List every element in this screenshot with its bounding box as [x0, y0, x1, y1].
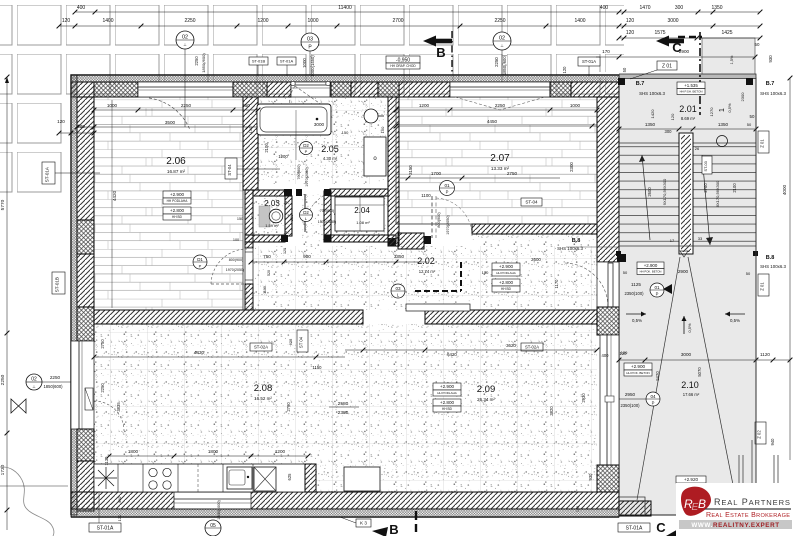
svg-text:0,5%: 0,5%: [632, 318, 642, 323]
svg-text:HH PODLAHA: HH PODLAHA: [437, 391, 457, 395]
svg-text:1200: 1200: [275, 449, 286, 454]
slope arrows 2.10: [626, 313, 646, 315]
label box ST-02A kitchen: [250, 343, 272, 351]
svg-text:3000: 3000: [667, 18, 678, 24]
svg-text:01: 01: [444, 183, 450, 188]
right wall window (2.09 slider): [600, 335, 619, 465]
svg-text:5420: 5420: [655, 371, 660, 381]
svg-text:9X170,56X300: 9X170,56X300: [662, 178, 667, 205]
svg-text:16.52 m²: 16.52 m²: [254, 396, 272, 401]
bottom exterior wall insulation band: [71, 509, 619, 517]
svg-text:2.03: 2.03: [264, 199, 280, 208]
svg-text:ST-02A: ST-02A: [525, 345, 539, 350]
svg-text:1000: 1000: [307, 18, 318, 24]
svg-text:+2.900: +2.900: [631, 364, 646, 369]
corner wall block at 2.07 door: [398, 233, 424, 249]
svg-text:2950: 2950: [625, 392, 636, 397]
svg-text:0,5%: 0,5%: [730, 318, 740, 323]
svg-text:150: 150: [342, 130, 349, 135]
radiator at window: [85, 388, 93, 410]
svg-text:Z 01: Z 01: [760, 282, 765, 291]
fence lines above logo: [739, 440, 778, 483]
label box K 3: [356, 519, 371, 527]
svg-text:1400: 1400: [574, 18, 585, 24]
svg-text:100: 100: [233, 238, 239, 242]
top wall window/door 2.05: [291, 82, 330, 97]
svg-text:Z 01: Z 01: [662, 63, 672, 69]
svg-text:2250: 2250: [0, 374, 6, 385]
svg-text:03: 03: [395, 286, 401, 291]
svg-text:REAL ESTATE BROKERAGE: REAL ESTATE BROKERAGE: [706, 512, 790, 519]
svg-text:1200: 1200: [278, 154, 288, 159]
svg-text:930: 930: [588, 473, 593, 481]
room 2.05 bathroom floor: [258, 97, 388, 184]
svg-text:400: 400: [77, 5, 86, 11]
hob 4 burners: [149, 468, 157, 476]
annex slab top edge strip: [619, 74, 756, 79]
svg-text:750: 750: [263, 254, 271, 259]
long interior wall (right segment): [425, 310, 597, 324]
level boxes 2.09: [433, 383, 461, 390]
toilet 2.03: [259, 206, 270, 227]
door swing arc (terrace door into 2.06): [149, 98, 190, 130]
svg-text:1970(2050): 1970(2050): [318, 220, 336, 224]
svg-text:2750: 2750: [507, 171, 518, 176]
svg-text:ST-01A: ST-01A: [97, 525, 114, 531]
svg-text:800(900): 800(900): [229, 258, 243, 262]
left wall xhatch block (y220): [77, 220, 94, 254]
washbasin 2.05: [364, 109, 378, 123]
left vertical dim line: [6, 77, 8, 530]
svg-text:B.8: B.8: [572, 238, 581, 244]
svg-text:5070: 5070: [697, 367, 702, 377]
top wall window/door opening 1: [138, 82, 233, 97]
door 2.02 to 2.07 leaf + arc: [431, 196, 433, 238]
svg-text:2.08: 2.08: [254, 383, 273, 394]
annex slab right of building wall upper: [596, 72, 619, 78]
label box ST-01A top right: [578, 57, 600, 66]
svg-text:1970(2050): 1970(2050): [446, 215, 450, 235]
svg-text:300: 300: [665, 129, 673, 134]
svg-text:+2.920: +2.920: [684, 477, 699, 482]
svg-text:3835: 3835: [116, 402, 121, 412]
svg-text:1350: 1350: [718, 122, 729, 127]
svg-text:P: P: [656, 292, 659, 297]
stair down arrow right flight: [702, 155, 710, 245]
svg-text:Z 02: Z 02: [757, 430, 762, 439]
svg-text:01: 01: [654, 285, 660, 290]
svg-text:2.02: 2.02: [417, 256, 435, 266]
svg-text:1350: 1350: [645, 122, 656, 127]
door circle 01/P in 2.07: [440, 181, 455, 196]
svg-text:8X170,56X300: 8X170,56X300: [715, 180, 720, 207]
label box ST-01B top: [249, 57, 268, 65]
svg-text:0,5%: 0,5%: [727, 103, 732, 113]
svg-text:1150: 1150: [312, 365, 322, 370]
svg-text:3000: 3000: [681, 352, 692, 357]
svg-text:1100: 1100: [263, 286, 267, 294]
landing edge below stairs: [619, 245, 756, 247]
left exterior wall masonry upper: [77, 97, 94, 220]
svg-text:HH ORAP. CHOD: HH ORAP. CHOD: [390, 64, 416, 68]
svg-text:2.05: 2.05: [321, 144, 339, 154]
svg-text:2380: 2380: [338, 410, 349, 416]
right boundary line x756: [755, 78, 757, 460]
svg-text:B.8: B.8: [766, 255, 775, 261]
svg-text:+1.535: +1.535: [684, 83, 698, 88]
svg-text:2250: 2250: [494, 18, 505, 24]
paver terrace grid left strip: [0, 95, 62, 195]
dim row across 2.10: [619, 359, 790, 361]
window circle 02 left: [26, 374, 42, 390]
kitchen counter: [94, 464, 316, 492]
svg-text:3820: 3820: [549, 406, 554, 416]
cabinet 2.04: [335, 197, 384, 231]
svg-text:ST-04: ST-04: [525, 200, 538, 205]
label ST-01B left wall: [52, 272, 65, 294]
interior wall below 2.05 (horizontal): [253, 190, 285, 196]
svg-text:B.7: B.7: [766, 81, 775, 87]
interior wall between core and 2.07 (vertical): [388, 97, 399, 246]
svg-text:900: 900: [303, 254, 311, 259]
svg-text:1200: 1200: [419, 103, 430, 108]
svg-text:625: 625: [287, 473, 292, 481]
svg-text:6420: 6420: [447, 352, 457, 357]
level boxes 2.06: [163, 191, 191, 198]
svg-text:ST-01B: ST-01B: [252, 58, 266, 63]
section mark C top: [656, 36, 669, 47]
label ST-04 rotated on wall: [225, 158, 237, 179]
top wall masonry segment 2: [267, 82, 291, 97]
svg-text:120: 120: [283, 248, 287, 254]
svg-text:D1: D1: [197, 257, 203, 262]
svg-text:B.7: B.7: [636, 81, 645, 87]
svg-text:SHS 100x6.3: SHS 100x6.3: [639, 91, 665, 96]
annex gray notch top: [702, 38, 755, 78]
right wall black block: [617, 254, 626, 262]
svg-text:-0,950: -0,950: [396, 57, 410, 63]
svg-text:ST-01A: ST-01A: [626, 525, 643, 531]
svg-text:D2: D2: [303, 143, 309, 148]
svg-text:2300: 2300: [740, 92, 745, 102]
svg-text:ST 04: ST 04: [299, 336, 304, 348]
svg-text:+2.800: +2.800: [170, 208, 185, 213]
door circle D2/P: [300, 142, 313, 155]
position circle 03 top: [301, 33, 319, 51]
svg-text:2300: 2300: [569, 162, 574, 172]
svg-text:SHS 100x6.3: SHS 100x6.3: [557, 246, 583, 251]
svg-text:02: 02: [31, 377, 37, 383]
right edge dim line: [789, 78, 791, 460]
svg-text:1120: 1120: [760, 352, 770, 357]
svg-text:400: 400: [600, 5, 609, 11]
svg-text:170: 170: [602, 49, 610, 54]
room 2.04 pantry floor: [334, 194, 388, 236]
door-size circle 03 in corridor: [391, 284, 405, 298]
svg-text:SHS 100x6.3: SHS 100x6.3: [760, 264, 786, 269]
svg-text:2750: 2750: [100, 339, 105, 349]
long interior wall below 2.02/2.06 (left segment): [94, 310, 363, 324]
svg-text:3500: 3500: [165, 120, 176, 125]
position circle 02 right-top: [493, 32, 511, 50]
door D1/P circle 2.06: [193, 255, 207, 269]
ramp V line left: [637, 257, 680, 500]
label -0.950: [386, 56, 420, 63]
svg-text:HH POK. BETON: HH POK. BETON: [626, 371, 649, 375]
svg-text:1730: 1730: [0, 464, 6, 475]
level boxes 2.02: [492, 263, 520, 270]
svg-text:ST-01B: ST-01B: [55, 277, 60, 292]
door arc 2.06: [211, 283, 247, 285]
dim row kitchen top: [94, 356, 345, 358]
staircase central stringer: [679, 133, 693, 254]
door circle D2/L: [300, 209, 313, 222]
svg-text:D2: D2: [303, 210, 309, 215]
top dim line 2: [59, 25, 760, 27]
label box Z 01: [657, 61, 677, 70]
svg-text:HH PODLAHA: HH PODLAHA: [496, 271, 516, 275]
svg-text:P: P: [652, 401, 655, 406]
svg-text:400: 400: [117, 496, 122, 503]
sideboard in 2.02: [406, 304, 470, 311]
svg-text:Z 01: Z 01: [760, 139, 765, 148]
svg-text:+2.900: +2.900: [499, 264, 514, 269]
top wall xhatch block 4: [550, 82, 571, 97]
top dim line 1: [75, 11, 760, 13]
svg-text:+2.800: +2.800: [440, 400, 455, 405]
B.7 markers row: [618, 78, 625, 85]
svg-text:P: P: [305, 149, 308, 154]
door into 2.05 + leaf: [304, 194, 306, 232]
svg-text:2250: 2250: [181, 103, 192, 108]
water heater star symbol: [95, 467, 117, 489]
svg-text:150: 150: [482, 270, 489, 275]
svg-text:1.08 m²: 1.08 m²: [356, 220, 370, 225]
svg-text:ST-01A: ST-01A: [280, 58, 294, 63]
svg-text:+2.900: +2.900: [170, 192, 185, 197]
building outer perimeter: [71, 75, 619, 517]
svg-text:⊥: ⊥: [500, 43, 504, 48]
svg-text:2.04: 2.04: [354, 206, 370, 215]
svg-text:2.09: 2.09: [477, 384, 496, 395]
black end caps interior walls: [284, 189, 292, 196]
svg-text:4830: 4830: [194, 350, 205, 355]
svg-text:520: 520: [267, 270, 271, 276]
interior wall right of 2.03: [285, 196, 292, 236]
svg-text:ST-04: ST-04: [227, 164, 232, 176]
svg-text:2900: 2900: [678, 269, 689, 274]
svg-text:625: 625: [288, 338, 293, 345]
left wall window (2.08): [71, 341, 94, 429]
right wall xhatch block: [597, 307, 619, 335]
svg-text:2930: 2930: [581, 393, 586, 403]
svg-text:HH BD: HH BD: [442, 407, 453, 411]
svg-text:250: 250: [242, 103, 250, 108]
svg-text:02: 02: [182, 35, 188, 41]
svg-text:16.87 m²: 16.87 m²: [167, 169, 186, 174]
section B jog dashes: [460, 262, 462, 291]
svg-text:1700: 1700: [431, 171, 442, 176]
svg-text:ST-02A: ST-02A: [254, 345, 268, 350]
svg-text:P: P: [199, 264, 202, 269]
label box ST-01A bottom right: [618, 523, 650, 532]
top wall xhatch block 3: [331, 82, 351, 97]
top wall xhatch block 4b: [378, 82, 399, 97]
svg-text:1270: 1270: [709, 107, 714, 117]
svg-text:2250: 2250: [184, 18, 195, 24]
label box ST 04 rotated: [297, 330, 308, 352]
svg-text:1850(600): 1850(600): [43, 384, 63, 389]
svg-text:120: 120: [576, 506, 580, 512]
kitchen sink: [227, 467, 252, 489]
left wall masonry bottom: [77, 461, 94, 511]
svg-text:17: 17: [670, 238, 675, 243]
svg-text:02: 02: [499, 36, 505, 42]
svg-text:400: 400: [602, 353, 610, 358]
svg-text:ST-01A: ST-01A: [582, 59, 596, 64]
interior wall below 2.03: [245, 235, 285, 242]
bottom wall right extension block: [619, 501, 651, 516]
right exterior wall masonry upper: [597, 97, 619, 262]
svg-text:1: 1: [719, 108, 726, 112]
svg-text:120: 120: [117, 514, 122, 521]
svg-text:4.30 m²: 4.30 m²: [323, 156, 338, 161]
svg-text:50: 50: [623, 270, 628, 275]
svg-text:150: 150: [237, 217, 243, 221]
svg-text:120: 120: [670, 113, 675, 120]
door swing arc into corridor: [564, 263, 608, 307]
svg-text:50: 50: [750, 114, 755, 119]
svg-text:P: P: [446, 190, 449, 195]
svg-text:4000: 4000: [782, 184, 787, 195]
svg-text:400: 400: [77, 124, 85, 129]
staircase treads: [619, 143, 756, 246]
svg-text:B: B: [389, 522, 398, 536]
interior wall left of 2.04: [324, 191, 331, 241]
svg-text:1000: 1000: [302, 58, 307, 68]
svg-text:HH PODLAHA: HH PODLAHA: [167, 199, 189, 203]
svg-text:B: B: [436, 45, 445, 60]
label box ST-01A bottom left: [89, 523, 121, 532]
svg-text:1100: 1100: [421, 193, 431, 198]
svg-text:26.34 m²: 26.34 m²: [477, 397, 495, 402]
svg-text:2350(100): 2350(100): [624, 291, 644, 296]
position circle 02 top: [176, 31, 194, 49]
svg-text:0,5%: 0,5%: [687, 323, 692, 333]
svg-text:1970(2050): 1970(2050): [226, 268, 244, 272]
svg-text:900: 900: [289, 214, 294, 221]
room 2.06 wood plank floor: [94, 97, 243, 310]
top wall masonry segment 3: [351, 82, 378, 97]
svg-text:1800: 1800: [208, 449, 219, 454]
svg-text:2580: 2580: [338, 401, 349, 407]
svg-text:150: 150: [380, 126, 385, 133]
svg-text:3150: 3150: [408, 165, 413, 175]
porch step outline: [619, 497, 651, 516]
label box SL-03 rotated: [702, 156, 712, 174]
svg-text:+2.800: +2.800: [499, 280, 514, 285]
svg-text:HH BD: HH BD: [501, 287, 512, 291]
svg-text:ST-03: ST-03: [704, 161, 708, 171]
svg-text:1000: 1000: [107, 103, 118, 108]
svg-text:2100: 2100: [732, 183, 737, 193]
svg-text:3000: 3000: [314, 122, 325, 127]
top exterior wall masonry: segment corner: [71, 82, 94, 97]
logo white panel: [676, 483, 799, 536]
svg-text:50: 50: [747, 122, 752, 127]
stair dim row: [619, 128, 756, 130]
svg-text:700(800): 700(800): [320, 209, 334, 213]
svg-text:1470: 1470: [639, 5, 650, 11]
svg-text:05: 05: [210, 523, 216, 529]
svg-text:1125: 1125: [631, 282, 641, 287]
label box ST-02A living: [521, 343, 543, 351]
svg-text:2250: 2250: [50, 375, 61, 380]
stair up arrow left flight: [642, 155, 650, 240]
interior wall below 2.07: [472, 224, 597, 234]
shower / washer 2.05: [364, 137, 386, 176]
interior wall between 2.06 and core (vertical): [243, 97, 258, 190]
svg-text:1575: 1575: [654, 30, 665, 36]
svg-text:2.06: 2.06: [166, 156, 186, 167]
svg-text:3350: 3350: [394, 254, 405, 259]
svg-text:120: 120: [626, 30, 635, 36]
svg-text:2600: 2600: [647, 187, 652, 197]
svg-text:1,5%: 1,5%: [730, 55, 734, 64]
svg-text:1000: 1000: [570, 103, 581, 108]
ramp V line right: [688, 257, 737, 505]
window circle 05 bottom: [205, 520, 221, 536]
svg-text:2.01: 2.01: [679, 104, 697, 114]
right annex background (gray concrete): [619, 78, 756, 515]
terrain squiggle bottom left: [0, 467, 54, 536]
room 2.07 wood plank floor: [396, 97, 597, 224]
svg-text:1170: 1170: [554, 279, 559, 289]
svg-text:ST-01A: ST-01A: [45, 166, 50, 182]
kitchen counter dims: [109, 455, 308, 457]
svg-text:C: C: [672, 40, 682, 55]
svg-text:1400: 1400: [102, 18, 113, 24]
svg-text:1850(/600): 1850(/600): [502, 54, 507, 75]
interior wall below 2.04: [324, 235, 396, 242]
top wall xhatch block: [94, 82, 138, 97]
svg-text:800(900): 800(900): [437, 212, 441, 228]
svg-text:4420: 4420: [112, 190, 117, 201]
small circle in stair: [717, 136, 728, 147]
+2.920 box: [676, 476, 706, 483]
svg-text:4450: 4450: [487, 119, 498, 124]
svg-text:1850(/600): 1850(/600): [201, 53, 206, 73]
svg-text:03: 03: [307, 37, 313, 43]
paver terrace grid top band: [0, 3, 624, 95]
svg-text:2.07: 2.07: [490, 153, 510, 164]
ramp apex marker: [680, 251, 688, 257]
svg-text:K 3: K 3: [360, 521, 367, 526]
svg-text:26: 26: [695, 146, 700, 151]
svg-text:1425: 1425: [721, 30, 732, 36]
svg-text:SHS 100x6.3: SHS 100x6.3: [760, 91, 786, 96]
top wall masonry segment 4: [399, 82, 450, 97]
kitchen island: [344, 467, 380, 491]
bottom exterior wall masonry: [71, 492, 619, 509]
svg-text:1970(2050): 1970(2050): [305, 167, 309, 187]
svg-text:+2.900: +2.900: [644, 263, 658, 268]
svg-text:1.59 m²: 1.59 m²: [265, 223, 279, 228]
svg-text:2250: 2250: [194, 56, 199, 66]
svg-text:HH BD: HH BD: [172, 215, 183, 219]
svg-text:120: 120: [562, 66, 567, 74]
svg-text:1350: 1350: [711, 5, 722, 11]
